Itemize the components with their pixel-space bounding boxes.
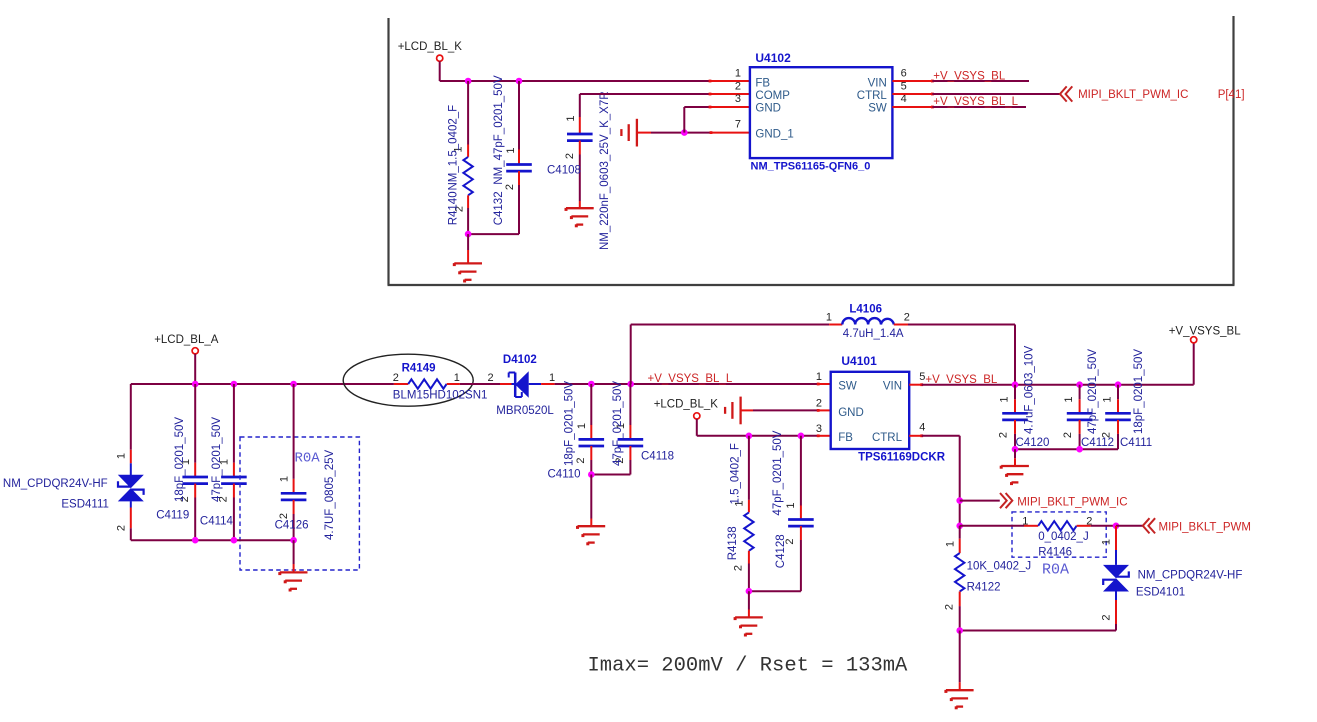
svg-text:SW: SW (868, 103, 887, 115)
junction C4110 bottom (588, 471, 595, 478)
wire LCD_BL_K to FB (696, 419, 698, 436)
svg-text:C4118: C4118 (641, 451, 674, 463)
svg-text:R4138: R4138 (727, 526, 739, 560)
svg-text:2: 2 (1086, 515, 1092, 527)
pin stub CTRL pin5 (892, 93, 932, 95)
wire bottom ESD4101 to R4122 (960, 630, 1116, 632)
svg-text:2: 2 (816, 398, 822, 410)
svg-text:2: 2 (733, 565, 745, 571)
ground below C4110 (578, 525, 606, 527)
transistor ESD4111 branch wire (130, 384, 132, 450)
svg-text:2: 2 (904, 312, 910, 324)
wire +LCD_BL_K to FB node (439, 61, 441, 81)
svg-text:6: 6 (901, 68, 907, 80)
svg-text:1: 1 (1022, 515, 1028, 527)
svg-text:L4106: L4106 (849, 304, 882, 316)
svg-text:SW: SW (838, 381, 857, 393)
capacitor C4119 (194, 384, 196, 463)
junction bus at C4126 (290, 381, 297, 388)
svg-text:CTRL: CTRL (857, 90, 888, 102)
junction GND node (681, 129, 688, 136)
svg-text:R0A: R0A (295, 451, 321, 467)
pin stub CTRL U4101 (909, 435, 922, 437)
svg-text:4.7uH_1.4A: 4.7uH_1.4A (843, 328, 904, 340)
ground U4101 GND pin (739, 397, 741, 425)
off-page connector MIPI_BKLT_PWM (1143, 518, 1150, 533)
wire SW stub (818, 383, 831, 385)
svg-text:2: 2 (735, 80, 741, 92)
junction bus at C4114 (231, 381, 238, 388)
ground below C4108 (566, 207, 594, 209)
svg-text:2: 2 (575, 457, 587, 463)
junction C4120 top (1012, 381, 1019, 388)
svg-text:NM_47pF_0201_50V: NM_47pF_0201_50V (493, 75, 505, 185)
svg-text:1: 1 (735, 68, 741, 80)
junction R4140 bottom (465, 231, 472, 238)
svg-text:4: 4 (919, 422, 925, 434)
wire to ground bottom right (959, 631, 961, 683)
svg-text:1: 1 (785, 502, 797, 508)
wire main LCD_BL_A bus (131, 383, 394, 385)
svg-text:P[41]: P[41] (1218, 89, 1245, 101)
inductor L4106 (829, 324, 842, 326)
pin stub GND U4101 (818, 409, 831, 411)
wire L4106 to VIN (908, 324, 1015, 326)
svg-text:+V_VSYS_BL: +V_VSYS_BL (1169, 326, 1242, 338)
svg-text:C4126: C4126 (275, 520, 309, 532)
wire R4138 C4128 bottom (749, 590, 801, 592)
svg-text:R4140: R4140 (448, 191, 460, 225)
wire GND pin3 riser (683, 107, 685, 133)
pin stub VIN pin6 (892, 80, 932, 82)
wire C4110 C4118 bottom (591, 474, 630, 476)
svg-text:1: 1 (116, 453, 128, 459)
svg-text:1: 1 (1100, 539, 1112, 545)
svg-text:7: 7 (735, 119, 741, 131)
svg-text:GND_1: GND_1 (755, 129, 793, 141)
diode ESD4101 (1103, 565, 1129, 578)
ground below C4126 (280, 571, 308, 573)
svg-text:3: 3 (816, 423, 822, 435)
frame border bottom (388, 284, 1235, 286)
pin stub GND_1 pin7 (711, 132, 750, 134)
wire C4126 to ground (293, 540, 295, 564)
svg-text:1: 1 (278, 476, 290, 482)
junction C4112 bottom (1076, 446, 1083, 453)
svg-text:R4146: R4146 (1038, 547, 1072, 559)
svg-text:10K_0402_J: 10K_0402_J (967, 560, 1032, 572)
wire VIN net (932, 80, 1029, 82)
junction bottom C4119 (192, 537, 199, 544)
svg-text:+V_VSYS_BL: +V_VSYS_BL (933, 70, 1006, 82)
diode ESD4111 (118, 475, 144, 488)
off-page connector MIPI_BKLT_PWM_IC lower (1000, 493, 1007, 508)
svg-text:+V_VSYS_BL_L: +V_VSYS_BL_L (648, 373, 733, 385)
wire D4102 to SW node (555, 383, 819, 385)
svg-text:U4101: U4101 (841, 354, 877, 368)
svg-text:1: 1 (1063, 396, 1075, 402)
svg-text:5: 5 (901, 80, 907, 92)
svg-text:4.7uF_0603_10V: 4.7uF_0603_10V (1024, 345, 1036, 434)
svg-text:1: 1 (454, 372, 460, 384)
svg-text:1: 1 (826, 312, 832, 324)
terminal +LCD_BL_K (437, 55, 443, 61)
svg-text:NM_TPS61165-QFN6_0: NM_TPS61165-QFN6_0 (751, 161, 871, 173)
junction ESD4101 top (1113, 523, 1120, 530)
svg-text:GND: GND (755, 103, 781, 115)
svg-text:NM_CPDQR24V-HF: NM_CPDQR24V-HF (3, 478, 108, 490)
capacitor C4111 (1117, 385, 1119, 400)
wire to off-page MIPI_BKLT_PWM (1116, 525, 1143, 527)
wire ground arm to GND_1 (637, 132, 651, 134)
svg-text:4.7UF_0805_25V: 4.7UF_0805_25V (324, 450, 336, 540)
svg-text:MIPI_BKLT_PWM: MIPI_BKLT_PWM (1159, 521, 1251, 533)
wire to L4106 (631, 324, 829, 326)
junction R4140 top (465, 78, 472, 85)
resistor R4138 (748, 436, 750, 500)
svg-text:C4114: C4114 (200, 516, 234, 528)
svg-text:1: 1 (576, 423, 588, 429)
svg-text:18pF_0201_50V: 18pF_0201_50V (174, 417, 186, 502)
ground below R4140 (454, 262, 482, 264)
svg-text:ESD4111: ESD4111 (61, 499, 109, 511)
ground below C4120 (1001, 465, 1029, 467)
svg-text:FB: FB (838, 432, 853, 444)
wire R4138 to ground (748, 591, 750, 609)
junction C4132 top (516, 78, 523, 85)
junction bottom C4114 (231, 537, 238, 544)
pin stub FB U4101 (818, 435, 831, 437)
resistor R4146 (960, 525, 1024, 527)
svg-text:1: 1 (505, 147, 517, 153)
junction C4128 top (798, 433, 805, 440)
svg-text:2: 2 (116, 525, 128, 531)
wire to +V_VSYS_BL terminal (1193, 343, 1195, 385)
svg-text:1: 1 (1101, 396, 1113, 402)
svg-text:C4132: C4132 (493, 191, 505, 225)
svg-text:VIN: VIN (883, 381, 902, 393)
terminal +LCD_BL_K lower (694, 413, 700, 419)
wire VIN bus (922, 384, 1194, 386)
svg-text:Imax= 200mV / Rset = 133mA: Imax= 200mV / Rset = 133mA (588, 655, 909, 678)
dashed option box R0A right (1012, 512, 1106, 557)
ellipse around R4149 (343, 354, 473, 406)
svg-text:1: 1 (945, 541, 957, 547)
svg-text:1: 1 (549, 372, 555, 384)
svg-text:18pF_0201_50V: 18pF_0201_50V (1133, 349, 1145, 434)
capacitor C4132 (518, 81, 520, 150)
wire ground to GND pin2 (741, 409, 753, 411)
wire CTRL net (932, 93, 1060, 95)
ground for GND pins U4102 (636, 119, 638, 147)
junction MIPI_BKLT_PWM_IC tap (956, 497, 963, 504)
svg-text:47pF_0201_50V: 47pF_0201_50V (1087, 349, 1099, 434)
ground bottom right (946, 689, 974, 691)
capacitor C4114 (233, 384, 235, 463)
svg-text:2: 2 (997, 432, 1009, 438)
resistor R4140 (467, 81, 469, 145)
frame border right (1232, 16, 1234, 285)
diode D4102 (500, 383, 512, 385)
svg-text:2: 2 (1100, 614, 1112, 620)
capacitor C4118 (629, 384, 631, 425)
svg-text:TPS61169DCKR: TPS61169DCKR (858, 452, 946, 464)
svg-text:2: 2 (1100, 432, 1112, 438)
junction C4112 top (1076, 381, 1083, 388)
pin stub VIN U4101 (909, 384, 922, 386)
svg-text:2: 2 (1062, 432, 1074, 438)
svg-text:18pF_0201_50V: 18pF_0201_50V (564, 381, 576, 466)
svg-text:C4120: C4120 (1016, 437, 1050, 449)
junction R4138 bottom (746, 588, 753, 595)
svg-text:NM_1.5_0402_F: NM_1.5_0402_F (448, 105, 460, 191)
junction C4110 top (588, 381, 595, 388)
svg-text:1: 1 (998, 396, 1010, 402)
svg-text:3: 3 (735, 93, 741, 105)
svg-text:D4102: D4102 (503, 354, 537, 366)
svg-text:+LCD_BL_K: +LCD_BL_K (398, 41, 463, 53)
svg-text:2: 2 (564, 153, 576, 159)
svg-text:MBR0520L: MBR0520L (496, 405, 554, 417)
pin stub SW pin4 (892, 106, 932, 108)
wire bottom bus lower-left (131, 539, 294, 541)
terminal +V_VSYS_BL (1191, 337, 1197, 343)
svg-text:2: 2 (504, 184, 516, 190)
frame border left (387, 18, 389, 285)
wire SW net (932, 106, 1026, 108)
svg-text:C4128: C4128 (775, 534, 787, 568)
svg-text:NM_CPDQR24V-HF: NM_CPDQR24V-HF (1138, 570, 1243, 582)
svg-text:GND: GND (838, 407, 864, 419)
svg-text:COMP: COMP (755, 90, 790, 102)
junction C4111 top (1115, 381, 1122, 388)
svg-text:MIPI_BKLT_PWM_IC: MIPI_BKLT_PWM_IC (1017, 496, 1127, 508)
svg-text:C4108: C4108 (547, 164, 581, 176)
svg-text:R4149: R4149 (402, 363, 436, 375)
svg-text:2: 2 (278, 513, 290, 519)
capacitor C4108 (579, 94, 581, 117)
junction bottom C4126 (290, 537, 297, 544)
svg-text:BLM15HD102SN1: BLM15HD102SN1 (393, 389, 488, 401)
svg-text:+LCD_BL_A: +LCD_BL_A (154, 334, 219, 346)
capacitor C4128 (800, 436, 802, 506)
svg-text:+V_VSYS_BL_L: +V_VSYS_BL_L (933, 96, 1018, 108)
wire COMP net (580, 93, 710, 95)
svg-text:1.5_0402_F: 1.5_0402_F (730, 443, 742, 504)
svg-text:MIPI_BKLT_PWM_IC: MIPI_BKLT_PWM_IC (1078, 89, 1188, 101)
junction R4122 bottom (956, 627, 963, 634)
wire C4120 to ground (1014, 449, 1016, 458)
dashed option box R0A lower-left (240, 437, 359, 570)
svg-text:2: 2 (944, 604, 956, 610)
svg-text:47pF_0201_50V: 47pF_0201_50V (612, 381, 624, 466)
pin stub FB pin1 (710, 80, 750, 82)
svg-text:0_0402_J: 0_0402_J (1038, 531, 1089, 543)
capacitor C4112 (1079, 385, 1081, 400)
wire to ground (467, 234, 469, 250)
wire R4149 to D4102 (460, 383, 500, 385)
wire R4140 C4132 bottom bus (468, 233, 519, 235)
wire CTRL net down (922, 435, 960, 437)
svg-text:R0A: R0A (1042, 562, 1069, 579)
junction C4120 bottom (1012, 446, 1019, 453)
wire C4110 to ground (590, 475, 592, 519)
svg-text:2: 2 (488, 372, 494, 384)
off-page connector MIPI_BKLT_PWM_IC (1060, 86, 1067, 101)
svg-text:R4122: R4122 (967, 581, 1001, 593)
wire +LCD_BL_A down (194, 354, 196, 384)
svg-text:ESD4101: ESD4101 (1136, 587, 1185, 599)
op-amp U4102 body (750, 67, 893, 158)
junction bus at LCD_BL_A (192, 381, 199, 388)
wire bottom bus C412x (1015, 448, 1118, 450)
terminal +LCD_BL_A (192, 348, 198, 354)
svg-text:C4111: C4111 (1120, 437, 1152, 449)
svg-text:FB: FB (755, 77, 770, 89)
resistor R4149 (394, 383, 408, 385)
pin stub GND pin3 (710, 106, 750, 108)
svg-text:CTRL: CTRL (872, 432, 903, 444)
junction R4138 top (746, 433, 753, 440)
svg-text:+LCD_BL_K: +LCD_BL_K (654, 399, 719, 411)
svg-text:C4110: C4110 (548, 469, 581, 481)
svg-text:VIN: VIN (868, 77, 887, 89)
svg-text:1: 1 (565, 115, 577, 121)
svg-text:1: 1 (816, 371, 822, 383)
svg-text:47pF_0201_50V: 47pF_0201_50V (772, 430, 784, 515)
capacitor C4120 (1014, 385, 1016, 400)
capacitor C4110 (590, 384, 592, 425)
op-amp U4101 body (831, 372, 910, 449)
capacitor C4126 (293, 384, 295, 479)
svg-text:NM_220nF_0603_25V_K_X7R: NM_220nF_0603_25V_K_X7R (599, 91, 611, 250)
svg-text:2: 2 (393, 372, 399, 384)
svg-text:C4119: C4119 (156, 509, 189, 521)
wire to off-page MIPI_BKLT_PWM_IC (960, 500, 1000, 502)
resistor R4122 (959, 526, 961, 539)
junction L4106 tap (627, 381, 634, 388)
diode ESD4101 leads (1115, 526, 1117, 550)
pin stub COMP pin2 (710, 93, 750, 95)
junction R4146 row (956, 523, 963, 530)
wire L4106 riser (630, 325, 632, 385)
svg-text:47pF_0201_50V: 47pF_0201_50V (211, 417, 223, 502)
svg-text:U4102: U4102 (755, 51, 791, 65)
ground below R4138 (735, 616, 763, 618)
